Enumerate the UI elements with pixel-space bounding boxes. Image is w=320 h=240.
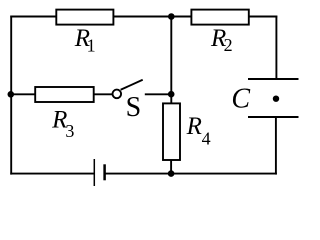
svg-text:4: 4 <box>202 128 211 148</box>
node: left rail junction to R3 <box>8 91 15 98</box>
node: bottom junction <box>168 170 175 177</box>
wire: switch fixed contact to middle junction <box>145 93 172 95</box>
svg-text:C: C <box>231 84 250 115</box>
switch S pivot circle <box>113 90 122 99</box>
label R4 <box>186 113 211 148</box>
resistor R1 <box>56 10 113 25</box>
wire: right branch down to capacitor <box>275 16 277 79</box>
resistor R2 <box>191 10 248 25</box>
svg-text:2: 2 <box>224 35 233 55</box>
wire: bottom rail left segment <box>10 173 94 175</box>
battery negative plate (short) <box>103 164 106 180</box>
svg-text:S: S <box>126 92 142 123</box>
node: top junction <box>168 13 175 20</box>
switch S lever <box>121 80 143 90</box>
wire: left rail <box>10 16 12 175</box>
wire: left rail to R3 <box>11 93 36 95</box>
label C <box>231 84 250 115</box>
battery positive plate (long) <box>93 159 95 186</box>
node: charged particle inside capacitor <box>273 96 279 102</box>
wire: middle branch from top junction to R4 <box>170 17 172 104</box>
capacitor C bottom plate <box>248 116 299 118</box>
label R3 <box>51 107 74 141</box>
wire: capacitor bottom plate to bottom rail <box>275 117 277 175</box>
wire: R3 to switch <box>94 93 112 95</box>
svg-text:R: R <box>186 113 202 140</box>
wire: top rail left segment <box>10 16 57 18</box>
label R1 <box>74 25 96 56</box>
wire: bottom rail right segment <box>105 173 277 175</box>
svg-text:3: 3 <box>65 121 74 141</box>
wire: R4 to bottom rail <box>170 160 172 175</box>
svg-text:1: 1 <box>87 35 96 55</box>
capacitor C top plate <box>248 78 299 80</box>
wire: top rail right segment <box>248 16 277 18</box>
resistor R3 <box>35 87 93 102</box>
label R2 <box>210 25 233 55</box>
label S <box>126 92 142 123</box>
node: middle junction <box>168 91 175 98</box>
resistor R4 <box>163 103 180 160</box>
wire: top rail middle segment <box>113 16 192 18</box>
